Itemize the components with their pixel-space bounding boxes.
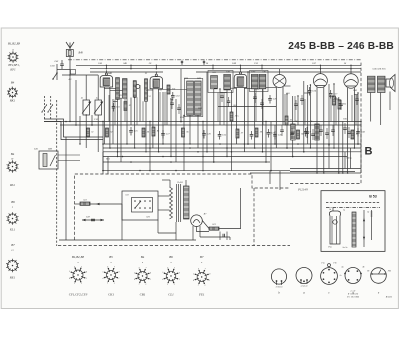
valve B4 detector diode — [273, 75, 286, 88]
connector view a — [296, 268, 312, 284]
svg-text:1: 1 — [86, 278, 87, 280]
svg-text:3: 3 — [167, 284, 168, 286]
svg-text:B: B — [365, 146, 373, 158]
resistor S19 — [333, 96, 336, 105]
resistor S2 — [106, 128, 109, 137]
detector filter coil — [291, 124, 296, 140]
capacitor cluster IF stage — [170, 92, 359, 114]
coil L6 padding — [145, 79, 148, 101]
capacitor C37 — [329, 93, 333, 95]
svg-text:CK1: CK1 — [108, 293, 114, 297]
wire selector to transformer — [158, 209, 170, 211]
resistor S25 — [338, 100, 341, 109]
wire antenna to switch — [57, 69, 70, 71]
wire heater bus 2 — [103, 161, 270, 163]
svg-text:C11: C11 — [116, 107, 120, 109]
svg-text:C2B: C2B — [180, 117, 185, 119]
svg-text:4: 4 — [162, 278, 163, 281]
resistor S9 — [255, 128, 258, 137]
resistor S6 — [182, 128, 185, 137]
wire transformer top leads — [169, 180, 171, 187]
oscillator coil La — [187, 81, 194, 115]
capacitor trimmer S4B — [130, 65, 132, 68]
wire ground bus right — [250, 172, 361, 174]
svg-text:C45 S20 S16: C45 S20 S16 — [373, 68, 387, 71]
valve B6 output pentode — [313, 74, 327, 88]
oscillator coil screening can — [185, 79, 203, 117]
svg-text:P8b: P8b — [387, 271, 391, 273]
B53 hatched guide — [352, 212, 356, 247]
svg-text:5: 5 — [193, 273, 194, 275]
svg-text:5: 5 — [134, 272, 135, 274]
wire volume drop solid — [65, 137, 67, 240]
wire heater bus 1 — [103, 156, 347, 158]
wire output transformer drops — [370, 93, 372, 122]
valve B2 mixer — [150, 77, 163, 89]
svg-text:8: 8 — [209, 273, 210, 275]
wire volume box taps — [58, 154, 80, 156]
svg-text:a1 a2 a3: a1 a2 a3 — [301, 286, 308, 288]
resistor S3 — [124, 102, 127, 111]
resistor S13 smoothing — [209, 227, 219, 230]
B53 scale lamp — [333, 220, 337, 224]
tone network coil — [315, 124, 319, 140]
svg-text:1: 1 — [179, 279, 180, 281]
wire top bus 1 — [76, 64, 361, 66]
capacitor trimmer C8 — [155, 65, 157, 68]
svg-text:4: 4 — [102, 277, 103, 280]
capacitor C30 — [267, 132, 271, 134]
svg-text:4: 4 — [193, 279, 194, 282]
connector view b — [271, 269, 286, 284]
wire volume to chassis step upper — [44, 119, 103, 137]
trimmer disc C6 — [136, 85, 140, 89]
svg-text:S4M: S4M — [48, 148, 52, 151]
capacitor trimmer C48 — [105, 65, 107, 68]
svg-text:5: 5 — [69, 271, 70, 273]
capacitor C28 — [273, 134, 277, 136]
capacitor C44 — [356, 131, 360, 133]
resistor R8 — [297, 130, 300, 139]
svg-text:4a: 4a — [342, 266, 344, 269]
wire screen bus — [44, 121, 361, 123]
legend spider symbol top view — [9, 53, 17, 61]
svg-text:B5: B5 — [109, 255, 113, 259]
svg-text:P1214/9: P1214/9 — [297, 189, 308, 192]
svg-text:B4B: B4B — [226, 71, 230, 74]
svg-text:B¹ 1214 1216: B¹ 1214 1216 — [348, 293, 358, 296]
svg-text:5: 5 — [162, 272, 163, 274]
B53 cord with arrows — [363, 210, 365, 247]
svg-text:8: 8 — [86, 271, 87, 273]
wire power drops — [121, 204, 123, 240]
svg-text:245 B-BB – 246 B-BB: 245 B-BB – 246 B-BB — [288, 41, 394, 52]
capacitor C50 reservoir — [222, 234, 224, 238]
svg-text:6: 6 — [198, 269, 199, 271]
svg-text:P1a: P1a — [320, 263, 324, 265]
valve B1 RF pentode — [100, 76, 113, 88]
wire heater feed risers — [102, 152, 104, 174]
capacitor C17 — [161, 133, 165, 135]
svg-text:CH1: CH1 — [50, 65, 55, 68]
resistor S4 — [142, 128, 145, 137]
extra right-half components — [280, 123, 351, 140]
capacitor C7 — [304, 131, 308, 133]
capacitor C14 — [171, 95, 175, 97]
valve B5 AF driver — [344, 74, 358, 88]
rectifier valve B7 — [191, 215, 203, 227]
svg-text:B 53: B 53 — [369, 195, 377, 199]
svg-text:RK1: RK1 — [9, 99, 16, 103]
svg-text:B 6532: B 6532 — [386, 297, 393, 299]
svg-text:3: 3 — [198, 285, 199, 287]
svg-text:Ta B1: Ta B1 — [177, 181, 183, 184]
B53 tension spring — [371, 210, 373, 240]
legend spider symbol RE1 — [8, 261, 18, 271]
svg-text:4: 4 — [134, 278, 135, 281]
output transformer primary — [368, 76, 376, 92]
coil L3 RF primary — [116, 78, 120, 100]
svg-text:CL1: CL1 — [168, 293, 174, 297]
legend spider symbol KL1 — [8, 214, 17, 223]
svg-text:b1 b2 b3: b1 b2 b3 — [276, 287, 283, 289]
component 4:2 block — [71, 70, 76, 75]
svg-text:P1b: P1b — [332, 263, 336, 265]
wave switch dashed links — [44, 96, 46, 120]
svg-text:B¹ 1 1951 1066: B¹ 1 1951 1066 — [347, 296, 359, 298]
wire rectifier filament leads — [192, 226, 194, 240]
connector view e — [371, 268, 387, 284]
switch contact pair a — [42, 105, 47, 112]
chassis dash-dot line top — [68, 59, 361, 61]
svg-text:1: 1 — [119, 278, 120, 280]
detail box B53 frame — [321, 191, 385, 252]
svg-text:6: 6 — [167, 268, 168, 270]
resistor R6 — [351, 130, 354, 139]
svg-text:C41: C41 — [34, 148, 38, 151]
wire volume to chassis step lower — [44, 122, 103, 140]
oscillator coil Lb — [195, 81, 202, 115]
svg-text:6: 6 — [74, 266, 75, 268]
svg-text:S6A: S6A — [235, 115, 239, 118]
legend spider symbol RS1 — [8, 162, 17, 171]
svg-text:L1: L1 — [80, 97, 84, 100]
svg-text:7: 7 — [81, 266, 82, 268]
wire HT bus 2 — [103, 147, 361, 149]
lightning arrester box B48 — [66, 50, 73, 57]
volume control with switch — [39, 151, 58, 169]
svg-text:B6: B6 — [169, 255, 173, 259]
svg-text:6: 6 — [107, 267, 108, 269]
svg-text:C45μ: C45μ — [346, 157, 352, 160]
wire mains feed — [75, 203, 81, 205]
svg-text:2: 2 — [145, 284, 146, 286]
mains transformer secondary winding — [184, 186, 190, 219]
svg-text:B7: B7 — [200, 255, 204, 259]
B53 dash-dot axis — [326, 207, 380, 209]
legend spider symbol RK1 — [9, 89, 17, 97]
svg-text:5a 5c: 5a 5c — [342, 247, 347, 249]
bus junction dots — [65, 121, 362, 174]
svg-text:KF1: KF1 — [9, 68, 16, 72]
wire junction dots group — [69, 71, 358, 173]
svg-text:7: 7 — [205, 269, 206, 271]
svg-text:B4: B4 — [11, 152, 15, 156]
tuning capacitor gang 1 — [83, 100, 90, 115]
wire B53 drop dashed — [253, 188, 255, 246]
switch contact pair b — [48, 105, 53, 112]
svg-text:B6: B6 — [11, 200, 15, 204]
svg-text:C4M: C4M — [251, 71, 256, 74]
connector view c — [321, 268, 338, 285]
B53 drive spindle — [329, 211, 340, 244]
output transformer secondary — [378, 76, 386, 92]
wire volume drop dashed — [56, 100, 58, 246]
coil L5 oscillator grid — [133, 81, 136, 98]
valve B3 IF pentode — [234, 74, 247, 87]
chassis stub lamp 2 — [203, 61, 205, 66]
capacitor C20 — [202, 133, 206, 135]
resistor S5 — [285, 116, 288, 125]
resistor R5 — [152, 127, 155, 136]
svg-text:8: 8 — [150, 272, 151, 274]
wire HT bus 1 — [103, 143, 361, 145]
svg-text:B7: B7 — [11, 243, 15, 247]
wire AVC bus — [218, 106, 276, 108]
tuning capacitor gang 2 — [95, 100, 102, 115]
svg-text:KL1: KL1 — [9, 228, 16, 232]
capacitor trimmer S8 — [212, 65, 214, 68]
svg-text:4: 4 — [69, 277, 70, 280]
resistor S12 mains dropper — [80, 202, 90, 205]
wire antenna coil feeds — [85, 75, 87, 100]
wire ground bus — [103, 170, 290, 172]
extra short verticals upper — [109, 89, 356, 125]
wire top bus 3 partial — [196, 71, 361, 73]
capacitor C11 — [112, 106, 116, 108]
capacitor C47 with arrows — [82, 219, 104, 221]
valve lead wires group — [104, 87, 354, 173]
antenna — [66, 42, 74, 48]
wire vertical interconnections group — [70, 69, 361, 173]
connector view d — [345, 268, 361, 284]
svg-text:7: 7 — [114, 267, 115, 269]
svg-text:3: 3 — [139, 284, 140, 286]
svg-text:C41: C41 — [55, 60, 59, 63]
IF transformer 2 screening can — [250, 71, 269, 92]
capacitor C27 — [250, 134, 254, 136]
wire top bus 3 left — [90, 71, 163, 73]
wire field coil connections — [290, 145, 361, 172]
mains voltage selector unit — [122, 191, 158, 220]
resistor S16 — [167, 85, 170, 94]
resistor S6A — [230, 112, 233, 121]
coil L4 RF secondary — [123, 79, 128, 99]
IF transformer 2 secondary — [259, 74, 266, 88]
wire rectifier output — [197, 188, 241, 232]
svg-text:S4M: S4M — [197, 77, 201, 80]
B53 dashed datum line — [326, 202, 380, 204]
svg-text:B48: B48 — [79, 52, 84, 55]
svg-text:RE1: RE1 — [105, 158, 110, 161]
capacitor C15 — [129, 130, 133, 132]
svg-text:5: 5 — [103, 271, 104, 273]
IF transformer 2 primary — [251, 74, 258, 88]
resistor S1 — [87, 128, 90, 137]
svg-text:1: 1 — [209, 280, 210, 282]
wire cathode bus — [60, 124, 361, 126]
svg-text:a' c' b': a' c' b' — [350, 291, 356, 293]
svg-text:6: 6 — [139, 268, 140, 270]
svg-text:4b: 4b — [363, 266, 365, 269]
power unit dashed enclosure — [75, 62, 362, 240]
svg-text:3: 3 — [74, 283, 75, 285]
IF transformer 1 secondary — [224, 74, 231, 90]
capacitor trimmer S6 — [350, 65, 352, 68]
wire speaker frame drop — [389, 92, 391, 111]
svg-text:FE1: FE1 — [198, 293, 205, 297]
wire HT bus 3 — [103, 151, 361, 153]
capacitor trimmer C30 — [261, 65, 263, 68]
svg-text:RE1: RE1 — [9, 276, 16, 280]
capacitor trimmer C47 — [319, 65, 321, 68]
svg-text:3: 3 — [107, 283, 108, 285]
svg-text:S11: S11 — [125, 195, 128, 197]
capacitor C34 — [308, 90, 312, 92]
resistor S7 — [236, 129, 239, 138]
capacitor C41 trimmer — [60, 63, 64, 65]
IF transformer 1 screening can — [208, 71, 233, 93]
mains bus solid bottom — [59, 239, 196, 241]
svg-text:7: 7 — [145, 268, 146, 270]
svg-text:7: 7 — [174, 268, 175, 270]
wire B53 drops — [269, 171, 271, 184]
svg-text:2: 2 — [174, 284, 175, 286]
svg-text:8: 8 — [179, 272, 180, 274]
capacitor C25 — [218, 134, 222, 136]
chassis stub lamp 1 — [181, 61, 183, 66]
svg-text:1a: 1a — [339, 275, 341, 277]
svg-text:S1: S1 — [91, 132, 93, 134]
wire top bus 2 — [90, 68, 361, 70]
mains transformer core — [176, 184, 178, 222]
loudspeaker — [386, 75, 395, 92]
IF transformer 1 primary — [211, 76, 218, 89]
svg-text:2: 2 — [114, 283, 115, 285]
capacitor C26 — [268, 98, 272, 100]
svg-text:RS1: RS1 — [9, 183, 15, 187]
svg-text:8: 8 — [119, 271, 120, 273]
wire valve coupling links — [104, 86, 358, 102]
svg-text:B4: B4 — [11, 81, 15, 85]
svg-text:P8: P8 — [366, 271, 369, 273]
svg-text:2: 2 — [81, 283, 82, 285]
capacitor trimmer C4B — [239, 65, 241, 68]
power unit dashed bottom — [58, 245, 290, 247]
svg-text:CB1: CB1 — [140, 293, 146, 297]
mains transformer primary winding — [170, 187, 173, 219]
svg-text:B4: B4 — [141, 255, 145, 259]
svg-text:C4B: C4B — [232, 62, 237, 65]
svg-text:2: 2 — [205, 285, 206, 287]
svg-text:B4B: B4B — [108, 72, 112, 75]
svg-text:1: 1 — [150, 279, 151, 281]
wire antenna down-lead — [69, 57, 71, 76]
